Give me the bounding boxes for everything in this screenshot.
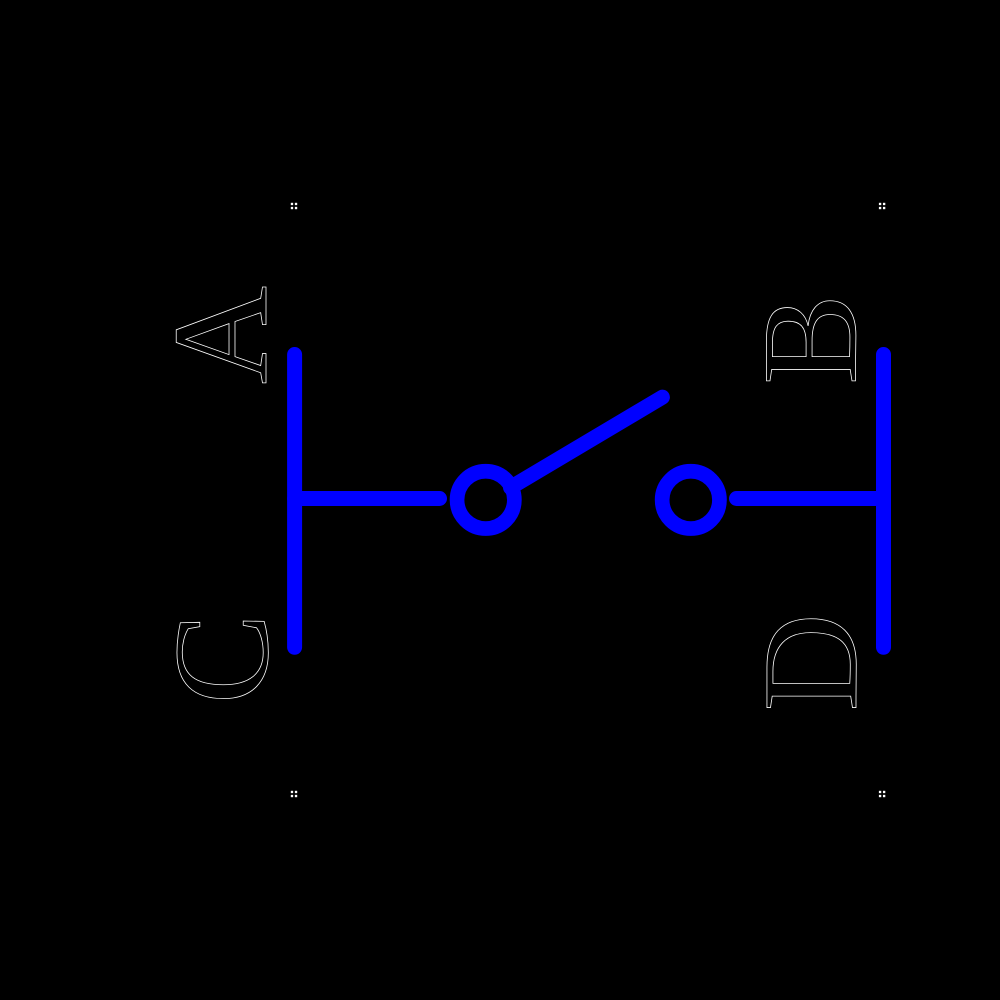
- switch contact circle (left): [457, 471, 514, 528]
- svg-text:C: C: [147, 613, 297, 704]
- svg-text:B: B: [736, 294, 886, 385]
- pin B/D vertical line (right): [876, 355, 891, 648]
- pin A/C vertical line (left): [287, 355, 302, 648]
- wire: left horizontal segment: [295, 491, 440, 506]
- switch lever: [511, 397, 663, 487]
- switch SW (SPST, open) body: [295, 355, 884, 648]
- svg-text:A: A: [146, 286, 296, 384]
- svg-text:D: D: [736, 613, 886, 711]
- wire: right horizontal segment: [737, 491, 884, 506]
- switch contact circle (right): [662, 471, 719, 528]
